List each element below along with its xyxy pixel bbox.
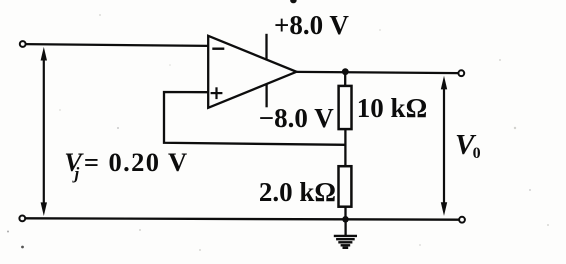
svg-text:−8.0 V: −8.0 V bbox=[259, 103, 334, 133]
svg-text:+8.0 V: +8.0 V bbox=[274, 10, 349, 40]
svg-text:2.0 kΩ: 2.0 kΩ bbox=[259, 177, 336, 207]
svg-text:10 kΩ: 10 kΩ bbox=[357, 93, 427, 123]
